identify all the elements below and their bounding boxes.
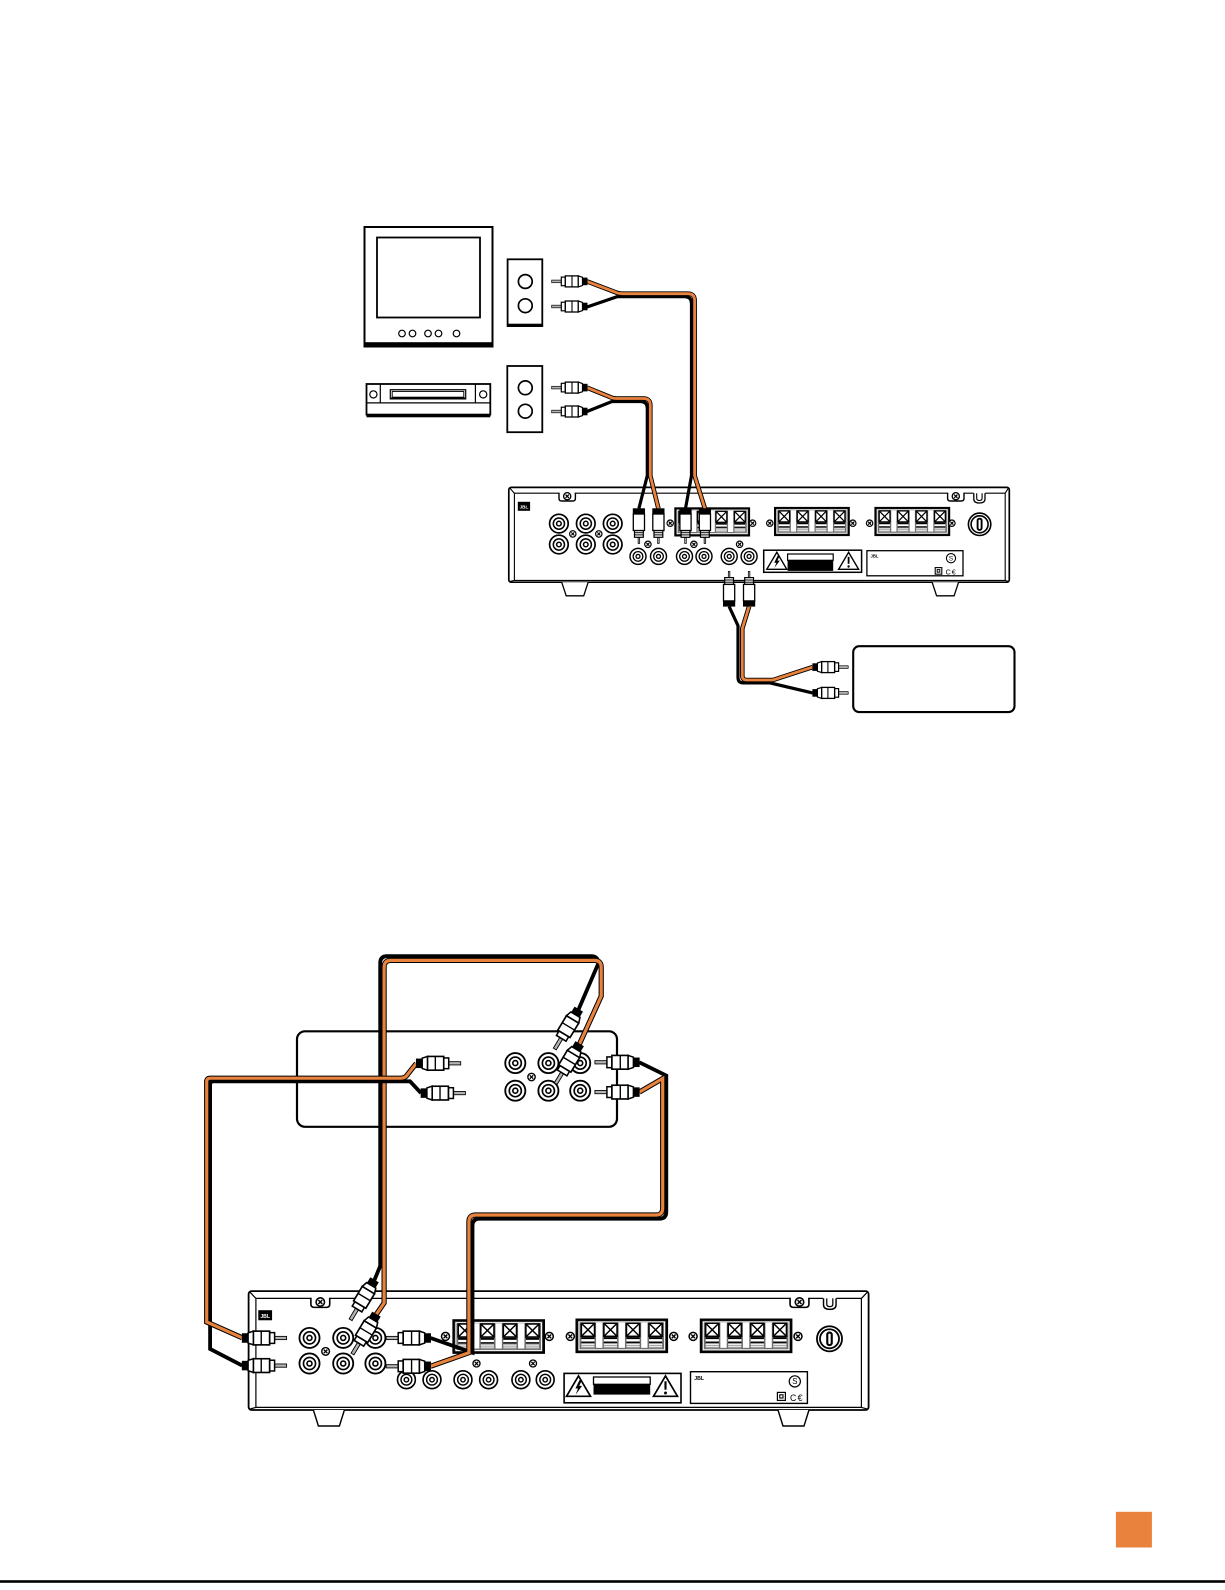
VCR deck xyxy=(367,384,491,417)
RCA plug to subwoofer orange xyxy=(812,662,848,673)
svg-text:€: € xyxy=(798,1393,803,1403)
foot right xyxy=(778,1410,809,1426)
top notch screw left xyxy=(311,1298,330,1308)
RCA plug DVD left 1 xyxy=(416,1056,461,1070)
foot left xyxy=(562,582,589,596)
warning label xyxy=(564,1373,681,1402)
top notch screw right xyxy=(790,1298,809,1308)
svg-text:JBL: JBL xyxy=(694,1376,705,1382)
RCA plug into receiver TV-L xyxy=(679,508,691,543)
speaker terminals A xyxy=(454,1320,544,1352)
RCA plug TV L xyxy=(552,276,588,287)
certification label xyxy=(691,1372,808,1404)
subwoofer box xyxy=(853,646,1014,712)
RCA plug DVD top orange xyxy=(550,1040,586,1087)
RCA plug DVD left 2 xyxy=(421,1086,466,1100)
warning label xyxy=(764,550,862,572)
RCA plug receiver2 top black xyxy=(344,1276,380,1323)
RCA plug receiver2 left 1 xyxy=(242,1331,287,1345)
RCA plug into receiver TV-R xyxy=(699,508,711,543)
cable holder tab xyxy=(824,1298,837,1309)
svg-text:S: S xyxy=(949,555,953,562)
wire VCR black xyxy=(587,402,647,509)
RCA plug DVD right 2 xyxy=(595,1085,640,1099)
wire subwoofer orange xyxy=(742,606,812,680)
panel screws xyxy=(442,1332,803,1340)
RCA plug DVD right 1 xyxy=(595,1055,640,1069)
wire TV black xyxy=(587,297,692,509)
svg-text:C: C xyxy=(946,568,951,577)
top notch screw right xyxy=(948,493,964,501)
speaker terminals B xyxy=(577,1320,667,1352)
RCA plug from receiver sub-L xyxy=(723,571,735,606)
output jacks row xyxy=(397,1371,554,1389)
foot left xyxy=(313,1410,344,1426)
wire loop-top black xyxy=(374,956,598,1280)
panel screws xyxy=(667,520,955,526)
power inlet xyxy=(968,513,990,535)
DVD player outline xyxy=(297,1031,617,1127)
DVD output jacks xyxy=(505,1053,590,1101)
foot right xyxy=(932,582,959,596)
svg-text:S: S xyxy=(792,1377,797,1386)
speaker terminals C xyxy=(875,508,949,535)
RCA plug receiver2 col3 row2 xyxy=(386,1359,431,1373)
power inlet xyxy=(817,1326,842,1351)
certification label xyxy=(867,551,963,577)
wire loop-top orange xyxy=(376,960,601,1314)
RCA plug TV R xyxy=(552,301,588,312)
RCA plug DVD top black xyxy=(549,1005,585,1052)
JBL logo xyxy=(258,1310,272,1320)
RCA plug into receiver VCR-R xyxy=(652,508,664,543)
cable holder tab xyxy=(974,493,985,503)
RCA plug VCR L xyxy=(552,382,588,393)
page number square xyxy=(1116,1512,1152,1548)
RCA plug receiver2 top orange xyxy=(346,1310,382,1357)
receiver 2 rear panel xyxy=(249,1291,869,1426)
speaker terminals C xyxy=(701,1320,791,1352)
svg-text:C: C xyxy=(790,1393,797,1403)
speaker terminals A xyxy=(675,508,749,535)
svg-text:€: € xyxy=(952,568,956,577)
top notch screw left xyxy=(559,493,575,501)
RCA plug receiver2 left 2 xyxy=(242,1359,287,1373)
DVD panel screw xyxy=(528,1073,535,1080)
TV monitor xyxy=(365,227,493,347)
wall plate 1 xyxy=(508,259,543,326)
RCA plug from receiver sub-R xyxy=(743,571,755,606)
input jacks cluster xyxy=(550,514,622,554)
wire VCR orange xyxy=(587,388,658,509)
JBL logo xyxy=(518,502,530,511)
svg-text:JBL: JBL xyxy=(871,554,879,559)
RCA plug to subwoofer black xyxy=(812,687,848,698)
RCA plug VCR R xyxy=(552,406,588,417)
wall plate 2 xyxy=(507,366,542,432)
wire subwoofer black xyxy=(729,606,813,693)
output jacks row xyxy=(630,548,757,564)
RCA plug into receiver VCR-L xyxy=(633,508,645,543)
RCA plug receiver2 col3 row1 xyxy=(386,1331,431,1345)
speaker terminals B xyxy=(775,508,849,535)
wire loop-right orange xyxy=(431,1079,663,1367)
receiver 1 rear panel xyxy=(509,487,1010,595)
wire loop-right black xyxy=(431,1062,667,1352)
input jacks cluster xyxy=(299,1328,385,1374)
wire left orange xyxy=(207,1063,417,1338)
footer rule xyxy=(0,1580,1225,1583)
wire TV orange xyxy=(587,281,705,508)
wire left black xyxy=(210,1081,421,1365)
